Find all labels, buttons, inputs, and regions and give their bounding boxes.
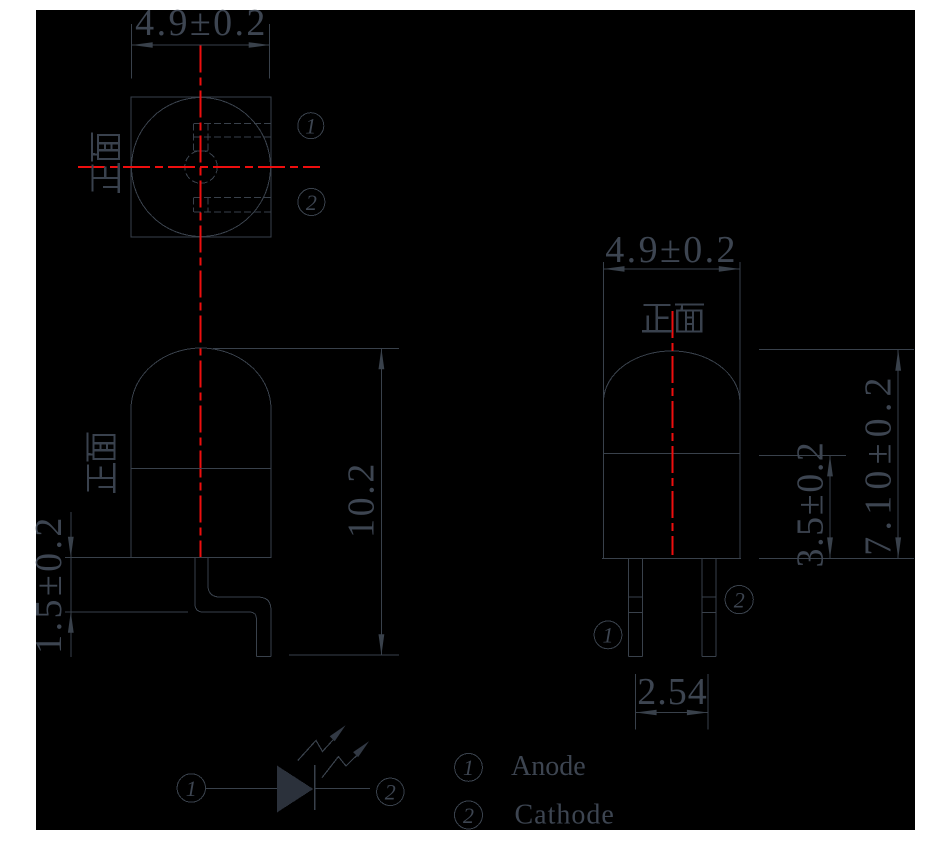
dimension 2.54 (front view lead pitch) — [636, 674, 708, 730]
svg-text:4.9±0.2: 4.9±0.2 — [605, 229, 738, 271]
svg-text:Cathode: Cathode — [515, 800, 615, 831]
side view lead end cap — [256, 656, 271, 658]
front view body bottom — [602, 557, 741, 559]
dimension 7.10±0.2 (front view) — [759, 350, 914, 559]
svg-text:2: 2 — [734, 587, 745, 612]
svg-text:2: 2 — [306, 190, 317, 215]
top view label 正面 (rotated) — [92, 133, 119, 194]
front view left leg — [628, 558, 630, 656]
side view label 正面 (rotated) — [88, 433, 115, 494]
top view lens circle — [132, 98, 271, 237]
svg-text:1.5±0.2: 1.5±0.2 — [28, 514, 70, 654]
front view pin 1 balloon — [594, 621, 622, 649]
dimension 4.9±0.2 (front view) — [604, 268, 740, 270]
front view dome arc — [604, 351, 740, 400]
symbol pin 1 balloon — [177, 774, 205, 802]
light emission arrow 2 — [322, 756, 357, 778]
svg-text:2.54: 2.54 — [637, 671, 708, 713]
top view pin2 tab hidden lines — [194, 197, 271, 199]
top view red horizontal centerline — [78, 166, 320, 168]
top view center hole circle (dashed) — [185, 151, 218, 184]
anode wire — [206, 788, 278, 790]
side view bent lead inner edge — [208, 558, 271, 657]
LED triangle — [277, 766, 313, 813]
side view body outline — [131, 348, 271, 558]
front view red vertical centerline — [671, 311, 673, 555]
side view bent lead outer edge — [195, 558, 257, 657]
side view flange line — [131, 468, 271, 470]
top/side view red vertical centerline — [200, 46, 202, 558]
svg-text:2: 2 — [385, 780, 396, 805]
svg-text:10.2: 10.2 — [341, 461, 383, 538]
top view package square — [131, 97, 271, 237]
top view pin 1 balloon — [298, 113, 324, 139]
legend pin 2 balloon — [455, 801, 483, 829]
svg-text:1: 1 — [463, 755, 474, 780]
cathode bar — [314, 765, 316, 810]
light emission arrow 1 — [298, 740, 333, 761]
front view pin 2 balloon — [725, 586, 753, 614]
top view pin 2 balloon — [298, 189, 325, 216]
svg-text:1: 1 — [186, 776, 197, 801]
svg-text:3.5±0.2: 3.5±0.2 — [790, 440, 832, 567]
svg-text:Anode: Anode — [511, 751, 586, 782]
svg-text:4.9±0.2: 4.9±0.2 — [135, 2, 268, 44]
svg-text:1: 1 — [603, 623, 614, 648]
svg-text:1: 1 — [305, 114, 316, 139]
front view right leg — [701, 558, 703, 656]
svg-text:7.10±0.2: 7.10±0.2 — [858, 371, 900, 555]
front view label 正面 (horizontal) — [642, 305, 704, 332]
front view body outline with extension lines — [603, 262, 605, 558]
cathode wire — [315, 788, 370, 790]
svg-text:2: 2 — [463, 803, 474, 828]
legend pin 1 balloon — [455, 754, 483, 782]
dimension 4.9±0.2 (top view) — [132, 24, 270, 78]
dimension 1.5±0.2 (side view lead standoff) — [65, 512, 188, 657]
top view pin1 tab hidden lines — [194, 122, 271, 124]
dimension 10.2 (side view height) — [213, 348, 399, 655]
front view flange line — [604, 452, 740, 454]
dimension 3.5±0.2 (front view) — [759, 455, 914, 558]
symbol pin 2 balloon — [377, 778, 404, 805]
